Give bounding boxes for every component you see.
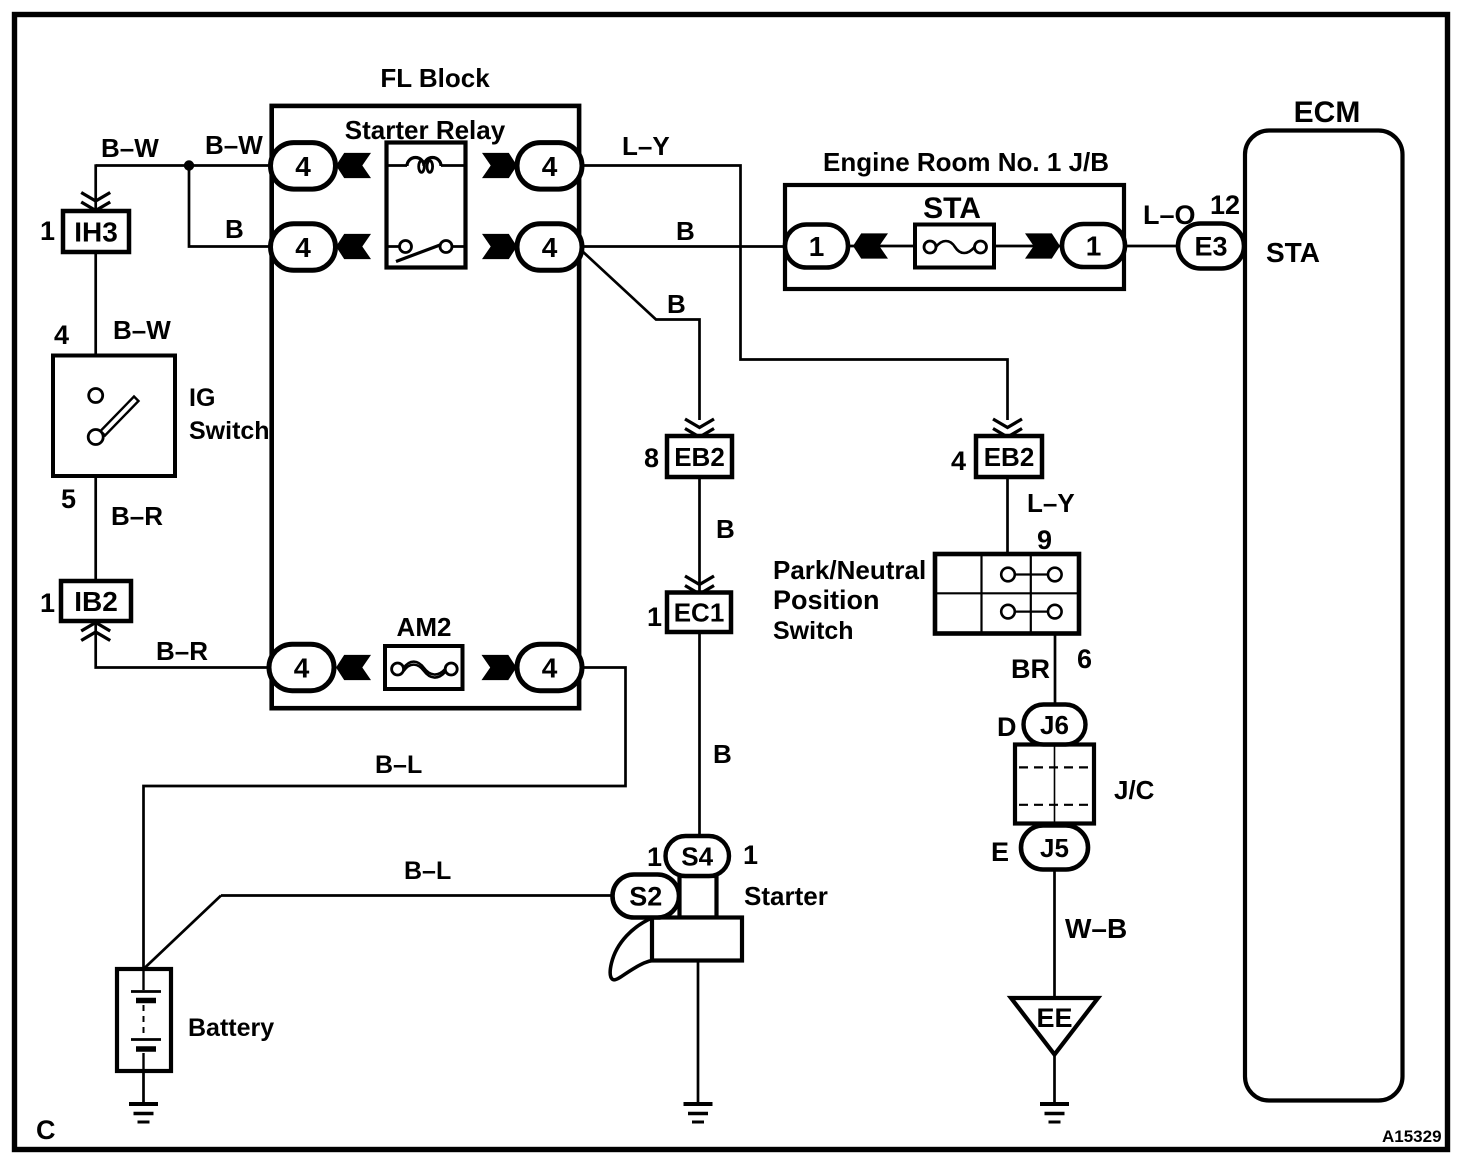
wire B diagonal to EB2 left bbox=[581, 250, 700, 420]
svg-text:S4: S4 bbox=[681, 841, 713, 871]
wire through J/C bbox=[1054, 746, 1056, 826]
junction block J/C bbox=[1015, 745, 1094, 824]
svg-text:B: B bbox=[713, 739, 732, 769]
svg-text:S2: S2 bbox=[629, 882, 662, 912]
svg-text:IB2: IB2 bbox=[74, 586, 118, 617]
Engine Room No.1 J/B box bbox=[785, 185, 1124, 289]
svg-text:1: 1 bbox=[809, 231, 825, 262]
svg-text:B: B bbox=[716, 514, 735, 544]
svg-text:J5: J5 bbox=[1040, 833, 1069, 863]
svg-text:Engine Room No. 1 J/B: Engine Room No. 1 J/B bbox=[823, 147, 1109, 177]
wire B-L AM2 to battery bbox=[144, 668, 626, 971]
wire L-Y from relay to EB2 right bbox=[583, 166, 1008, 421]
connector chevron below IB2 bbox=[81, 623, 110, 641]
svg-text:4: 4 bbox=[542, 653, 558, 684]
wire IG switch internal bottom bbox=[94, 444, 97, 477]
wire drop to IH3 bbox=[94, 164, 97, 212]
fuse STA bbox=[915, 225, 994, 268]
IG switch bbox=[53, 356, 175, 477]
svg-text:EB2: EB2 bbox=[984, 442, 1035, 472]
svg-text:8: 8 bbox=[644, 443, 659, 473]
svg-text:ECM: ECM bbox=[1294, 96, 1361, 129]
svg-text:C: C bbox=[36, 1115, 56, 1145]
connector chevron above EB2 left bbox=[685, 419, 714, 437]
connector J6 bbox=[1024, 705, 1086, 745]
svg-text:L–Y: L–Y bbox=[622, 131, 670, 161]
connector chevron above EB2 right bbox=[993, 419, 1022, 437]
wire J/B internal bbox=[848, 245, 1063, 248]
svg-text:A15329: A15329 bbox=[1382, 1127, 1442, 1146]
svg-text:4: 4 bbox=[542, 232, 558, 263]
svg-text:E3: E3 bbox=[1194, 232, 1227, 262]
svg-text:4: 4 bbox=[951, 446, 966, 476]
svg-text:L–Y: L–Y bbox=[1027, 488, 1075, 518]
relay switch contact left bbox=[400, 241, 412, 253]
svg-text:Park/Neutral: Park/Neutral bbox=[773, 555, 926, 585]
relay switch contact right bbox=[440, 241, 452, 253]
svg-text:1: 1 bbox=[1086, 231, 1102, 262]
svg-text:4: 4 bbox=[54, 320, 69, 350]
wire starter to ground bbox=[697, 960, 700, 1104]
ECM box bbox=[1245, 131, 1403, 1101]
svg-text:Switch: Switch bbox=[773, 617, 854, 645]
starter relay box bbox=[387, 143, 466, 268]
svg-text:4: 4 bbox=[295, 151, 311, 182]
svg-text:B–W: B–W bbox=[205, 130, 263, 160]
svg-text:B–W: B–W bbox=[113, 315, 171, 345]
svg-text:Position: Position bbox=[773, 585, 880, 615]
fuse AM2 bbox=[385, 646, 463, 689]
connector EB2 left bbox=[667, 436, 732, 477]
svg-text:B: B bbox=[667, 289, 686, 319]
svg-text:BR: BR bbox=[1011, 654, 1050, 684]
wire EE to ground bbox=[1053, 1054, 1056, 1104]
connector S4 bbox=[666, 836, 730, 876]
connector 4 row2 left bbox=[271, 224, 336, 270]
relay switch lever bbox=[396, 245, 440, 262]
arrow J/B right bbox=[1025, 233, 1060, 258]
svg-text:B–L: B–L bbox=[375, 751, 422, 779]
svg-text:IH3: IH3 bbox=[74, 217, 118, 248]
wire L-Y EB2 to park/neutral switch bbox=[1006, 477, 1009, 556]
arrow row2 left bbox=[336, 234, 371, 259]
svg-text:EB2: EB2 bbox=[674, 442, 725, 472]
svg-text:Starter: Starter bbox=[744, 881, 828, 911]
svg-text:EC1: EC1 bbox=[674, 598, 725, 628]
wire B-L to starter S2 bbox=[221, 894, 614, 897]
ground connector EE bbox=[1011, 998, 1098, 1055]
connector S2 bbox=[613, 875, 680, 918]
svg-text:6: 6 bbox=[1077, 644, 1092, 674]
svg-text:4: 4 bbox=[542, 151, 558, 182]
svg-text:W–B: W–B bbox=[1065, 913, 1127, 944]
svg-text:D: D bbox=[997, 712, 1017, 742]
wire B-R IB2 to FL block row3 bbox=[96, 620, 273, 668]
connector 1 J/B left bbox=[785, 225, 848, 268]
arrow row3 right bbox=[482, 655, 517, 680]
connector EC1 bbox=[667, 593, 731, 633]
svg-text:9: 9 bbox=[1037, 525, 1052, 555]
wire BR switch to J6 bbox=[1054, 633, 1057, 706]
svg-text:STA: STA bbox=[1266, 237, 1320, 268]
arrow J/B left bbox=[853, 233, 888, 258]
svg-text:1: 1 bbox=[743, 840, 758, 870]
connector E3 bbox=[1178, 224, 1244, 269]
connector IH3 bbox=[63, 211, 129, 252]
FL Block box bbox=[272, 106, 579, 708]
arrow row2 right bbox=[482, 234, 517, 259]
ground starter bbox=[684, 1104, 713, 1122]
svg-text:4: 4 bbox=[295, 232, 311, 263]
wire battery to ground bbox=[142, 1071, 145, 1104]
arrow row3 left bbox=[336, 655, 371, 680]
svg-text:EE: EE bbox=[1036, 1003, 1072, 1033]
connector IB2 bbox=[61, 581, 131, 621]
wire IH3 to IG switch bbox=[94, 252, 97, 356]
svg-text:IG: IG bbox=[189, 384, 215, 412]
wire B EB2 to EC1 bbox=[698, 477, 701, 594]
svg-text:STA: STA bbox=[923, 192, 981, 225]
connector chevron above EC1 bbox=[685, 576, 714, 594]
connector chevron above IH3 bbox=[81, 193, 110, 211]
wire B-R IG switch to IB2 bbox=[94, 476, 97, 582]
svg-text:4: 4 bbox=[294, 653, 310, 684]
svg-text:1: 1 bbox=[647, 602, 662, 632]
svg-text:1: 1 bbox=[40, 588, 55, 618]
svg-text:Battery: Battery bbox=[188, 1014, 274, 1042]
connector 1 J/B right bbox=[1062, 224, 1125, 267]
svg-text:E: E bbox=[991, 837, 1009, 867]
arrow row1 left bbox=[336, 153, 371, 178]
connector 4 row1 right bbox=[517, 143, 582, 190]
wire IG switch internal top bbox=[94, 356, 97, 389]
svg-text:J6: J6 bbox=[1040, 710, 1069, 740]
park/neutral position switch bbox=[935, 554, 1079, 634]
svg-text:B–R: B–R bbox=[156, 636, 208, 666]
svg-text:B–R: B–R bbox=[111, 501, 163, 531]
starter body bbox=[652, 918, 742, 961]
connector 4 row1 left bbox=[271, 143, 336, 190]
svg-text:AM2: AM2 bbox=[397, 612, 452, 642]
connector 4 row3 left bbox=[269, 644, 334, 691]
svg-text:FL Block: FL Block bbox=[380, 63, 490, 93]
connector J5 bbox=[1021, 826, 1088, 870]
wire L-O from J/B to E3 bbox=[1125, 245, 1180, 248]
wire B-W horizontal to FL block bbox=[96, 164, 273, 167]
svg-text:B–L: B–L bbox=[404, 857, 451, 885]
wire B to Engine Room J/B bbox=[583, 245, 786, 248]
svg-text:5: 5 bbox=[61, 484, 76, 514]
wire W-B J5 to EE bbox=[1053, 869, 1056, 998]
svg-text:1: 1 bbox=[40, 216, 55, 246]
wire B EC1 to S4 bbox=[698, 632, 701, 838]
connector 4 row2 right bbox=[517, 224, 582, 270]
svg-text:Switch: Switch bbox=[189, 417, 270, 445]
ground EE bbox=[1040, 1104, 1069, 1122]
connector EB2 right bbox=[976, 436, 1042, 477]
svg-text:B: B bbox=[225, 214, 244, 244]
wire B to FL block row2 bbox=[189, 166, 273, 247]
junction node B-W bbox=[184, 160, 194, 170]
wire relay row2 internal bbox=[388, 245, 465, 248]
svg-text:12: 12 bbox=[1210, 190, 1240, 220]
arrow row1 right bbox=[482, 153, 517, 178]
ground battery bbox=[129, 1104, 158, 1122]
svg-text:B: B bbox=[676, 216, 695, 246]
battery bbox=[117, 969, 171, 1071]
svg-text:B–W: B–W bbox=[101, 133, 159, 163]
svg-text:1: 1 bbox=[647, 842, 662, 872]
relay coil bbox=[407, 158, 441, 167]
wire B-L diagonal to battery bbox=[144, 896, 222, 970]
svg-text:J/C: J/C bbox=[1114, 775, 1155, 805]
wire relay row1 internal bbox=[388, 164, 465, 167]
starter solenoid stem bbox=[680, 876, 717, 918]
starter pinion crescent bbox=[610, 918, 653, 980]
connector 4 row3 right bbox=[517, 644, 582, 691]
